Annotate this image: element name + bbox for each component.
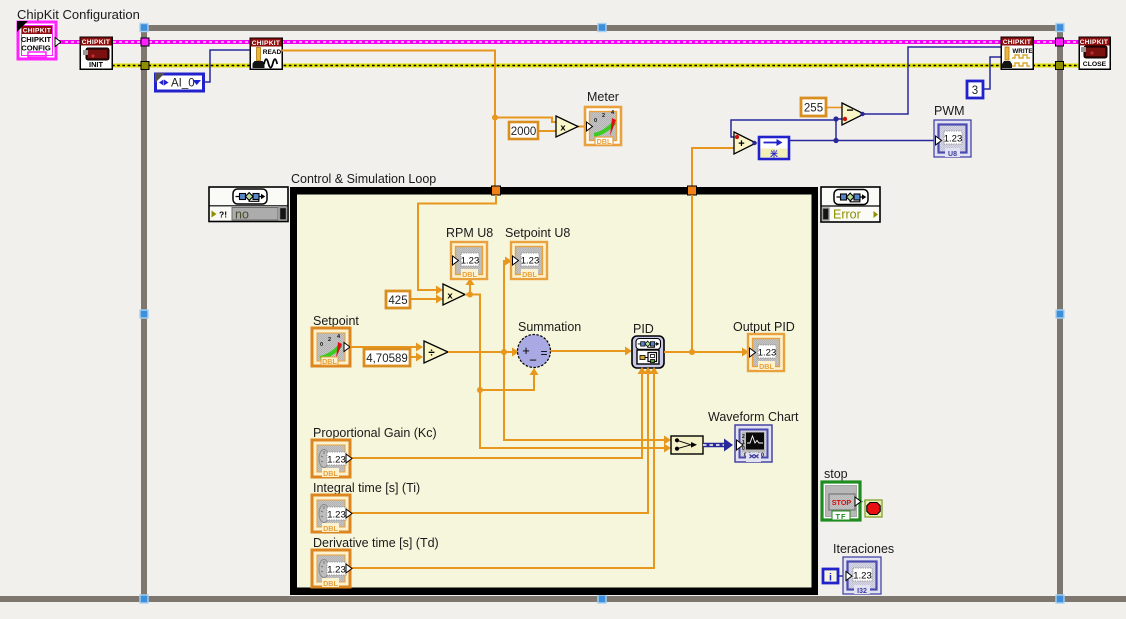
divide node	[424, 341, 448, 363]
wire Kc to PID	[350, 374, 642, 458]
svg-text:Summation: Summation	[518, 320, 581, 334]
svg-text:CLOSE: CLOSE	[1083, 61, 1107, 68]
handle bottom-left	[140, 595, 148, 603]
svg-text:?!: ?!	[219, 210, 227, 220]
wire summation to PID	[551, 350, 626, 352]
svg-text:CHIPKIT: CHIPKIT	[23, 28, 51, 35]
wire READ output to junction and meter chain	[282, 51, 556, 187]
numeric constant 4,70589	[364, 349, 410, 366]
svg-text:CHIPKIT: CHIPKIT	[1003, 39, 1031, 46]
svg-text:DBL: DBL	[597, 137, 612, 146]
wire 4,70589 to divide	[410, 356, 416, 358]
wire feedback add top input	[731, 120, 836, 137]
svg-text:TF: TF	[835, 512, 846, 521]
chipkit close node	[1079, 37, 1110, 69]
svg-text:Derivative time [s] (Td): Derivative time [s] (Td)	[313, 536, 439, 550]
svg-text:DBL: DBL	[323, 579, 338, 588]
multiply node (meter chain)	[556, 116, 578, 137]
add node	[734, 132, 757, 154]
svg-text:Proportional Gain (Kc): Proportional Gain (Kc)	[313, 426, 437, 440]
svg-text:Control & Simulation Loop: Control & Simulation Loop	[291, 172, 436, 186]
Output PID indicator	[748, 334, 784, 371]
simulation loop frame	[290, 187, 818, 595]
while loop top border	[141, 25, 1063, 31]
output node panel (Error)	[821, 187, 880, 222]
svg-text:2: 2	[328, 337, 331, 343]
svg-text:Iteraciones: Iteraciones	[833, 542, 894, 556]
svg-text:425: 425	[388, 295, 407, 307]
wire conv output to PWM	[789, 140, 934, 142]
wire divide to summation	[448, 352, 664, 440]
svg-text:÷: ÷	[428, 348, 435, 360]
svg-text:CHIPKIT: CHIPKIT	[252, 40, 280, 47]
svg-text:1.23: 1.23	[853, 571, 872, 582]
while loop bottom border	[0, 596, 1126, 602]
while loop right border	[1057, 25, 1063, 602]
svg-text:RPM U8: RPM U8	[446, 226, 493, 240]
PWM indicator	[934, 120, 971, 158]
svg-text:1.23: 1.23	[327, 565, 346, 576]
svg-text:DBL: DBL	[462, 270, 477, 279]
magenta tunnel right	[1056, 38, 1064, 46]
AI_0 enum constant	[155, 73, 204, 91]
bundle input arrows	[664, 436, 671, 445]
svg-text:AI_0: AI_0	[171, 78, 195, 90]
svg-text:4,70589: 4,70589	[366, 353, 408, 365]
wire multiply out net (to RPM U8 / summation / bundle)	[465, 285, 664, 448]
chipkit read node	[250, 38, 282, 69]
iteration terminal i	[823, 569, 838, 584]
svg-text:INIT: INIT	[89, 60, 103, 69]
wire subtract output to WRITE	[861, 47, 1001, 114]
multiply node RPM	[443, 284, 465, 305]
wire i to Iteraciones	[839, 575, 848, 577]
stop boolean control	[822, 482, 861, 521]
wire tunnel1 to multiply top input	[418, 195, 496, 290]
handle top-mid	[598, 24, 606, 32]
tunnel RPM (loop top)	[492, 186, 501, 195]
svg-text:0: 0	[594, 118, 597, 124]
svg-text:2000: 2000	[511, 126, 537, 138]
svg-text:READ: READ	[263, 49, 282, 56]
junction dot READ wire	[492, 115, 498, 121]
handle mid-left	[140, 310, 148, 318]
tunnel PID out (loop top)	[688, 186, 697, 195]
svg-text:i: i	[829, 572, 832, 584]
boolean dotted wire	[861, 501, 866, 503]
halt simulation node	[865, 500, 882, 517]
svg-text:no: no	[235, 208, 249, 222]
numeric constant 255	[801, 98, 826, 116]
svg-text:PWM: PWM	[934, 104, 965, 118]
wire Setpoint to divide	[350, 346, 416, 348]
svg-text:0: 0	[742, 446, 745, 452]
svg-text:1.23: 1.23	[327, 455, 346, 466]
svg-text:+: +	[738, 138, 744, 150]
wire Ti to PID	[350, 374, 648, 513]
svg-text:U8: U8	[948, 151, 957, 158]
waveform chart indicator	[735, 425, 772, 462]
wire to Setpoint U8	[504, 261, 505, 351]
svg-text:Setpoint U8: Setpoint U8	[505, 226, 570, 240]
svg-text:DBL: DBL	[323, 524, 338, 533]
junction dots x836	[833, 116, 838, 121]
svg-text:DBL: DBL	[323, 469, 338, 478]
svg-text:1.23: 1.23	[521, 256, 540, 267]
svg-text:−: −	[846, 103, 853, 117]
numeric constant 425	[386, 291, 410, 308]
svg-text:x: x	[560, 123, 566, 134]
svg-text:Setpoint: Setpoint	[313, 314, 359, 328]
wire Td to PID	[350, 374, 654, 568]
numeric constant 2000	[509, 122, 538, 139]
RPM U8 indicator	[451, 242, 487, 279]
while loop left border	[141, 25, 147, 602]
svg-text:255: 255	[804, 103, 823, 115]
summation node	[518, 335, 551, 368]
svg-text:ChipKit Configuration: ChipKit Configuration	[17, 7, 140, 22]
subtract node	[842, 103, 865, 125]
Meter indicator	[585, 107, 621, 146]
svg-text:DBL: DBL	[522, 270, 537, 279]
PID node	[632, 336, 664, 368]
magenta tunnel left	[141, 38, 149, 46]
error tunnel left	[141, 62, 149, 70]
Td control	[312, 550, 352, 588]
unit conversion node	[759, 137, 789, 159]
handle bottom-mid	[598, 595, 606, 603]
svg-text:1.23: 1.23	[758, 348, 777, 359]
bundle node	[671, 436, 703, 454]
svg-text:米: 米	[770, 149, 778, 159]
svg-text:Meter: Meter	[587, 90, 619, 104]
Setpoint U8 indicator	[511, 242, 547, 279]
magenta reference wire	[59, 40, 1079, 44]
svg-text:−: −	[529, 353, 537, 368]
svg-text:CHIPKIT: CHIPKIT	[1080, 39, 1108, 46]
svg-text:1.23: 1.23	[327, 510, 346, 521]
svg-text:Error: Error	[833, 208, 861, 222]
chipkit config node	[17, 21, 61, 59]
chipkit init node	[80, 37, 112, 69]
numeric constant 3	[967, 81, 983, 98]
wire 425 to multiply bottom input	[410, 298, 436, 300]
svg-text:=: =	[540, 346, 547, 360]
svg-text:STOP: STOP	[832, 498, 852, 507]
Iteraciones indicator	[843, 557, 881, 595]
handle bottom-right	[1056, 595, 1064, 603]
AI_0 wire	[204, 50, 250, 82]
svg-text:CONFIG: CONFIG	[21, 44, 51, 53]
svg-text:stop: stop	[824, 467, 848, 481]
Ti control	[312, 495, 352, 533]
handle top-right	[1056, 24, 1064, 32]
svg-text:3: 3	[972, 85, 978, 97]
error tunnel right	[1056, 62, 1064, 70]
svg-text:CHIPKIT: CHIPKIT	[82, 39, 110, 46]
wire vertical junction x836	[835, 119, 837, 141]
Setpoint control	[312, 328, 350, 366]
svg-text:0: 0	[320, 342, 323, 348]
cluster wire bundle to chart	[703, 439, 733, 452]
svg-text:2: 2	[602, 113, 605, 119]
Kc control	[312, 440, 352, 478]
wire 3 to WRITE	[983, 57, 1001, 89]
wire junction to subtract input	[836, 118, 843, 120]
svg-text:Waveform Chart: Waveform Chart	[708, 410, 799, 424]
wire multiply to Meter	[576, 126, 586, 128]
wire 2000 to multiply	[539, 130, 556, 132]
svg-text:Output PID: Output PID	[733, 320, 795, 334]
handle top-left	[140, 24, 148, 32]
simulation loop interior	[297, 195, 812, 588]
svg-text:Integral time [s] (Ti): Integral time [s] (Ti)	[313, 481, 420, 495]
error wire (yellow/black dashed)	[112, 64, 1079, 68]
svg-text:WRITE: WRITE	[1012, 48, 1032, 55]
wire PID to Output PID and tunnel2	[664, 195, 742, 352]
svg-text:DBL: DBL	[322, 357, 337, 366]
input node panel (no)	[209, 187, 288, 222]
svg-text:x: x	[447, 291, 453, 302]
wire 255 to subtract	[826, 107, 842, 109]
svg-text:DBL: DBL	[759, 362, 774, 371]
wire tunnel2 up to add node	[692, 148, 734, 186]
svg-text:1.23: 1.23	[944, 134, 963, 145]
chipkit write node	[1001, 37, 1033, 69]
svg-text:PID: PID	[633, 322, 654, 336]
svg-text:I32: I32	[857, 588, 867, 595]
handle mid-right	[1056, 310, 1064, 318]
svg-text:1.23: 1.23	[461, 256, 480, 267]
